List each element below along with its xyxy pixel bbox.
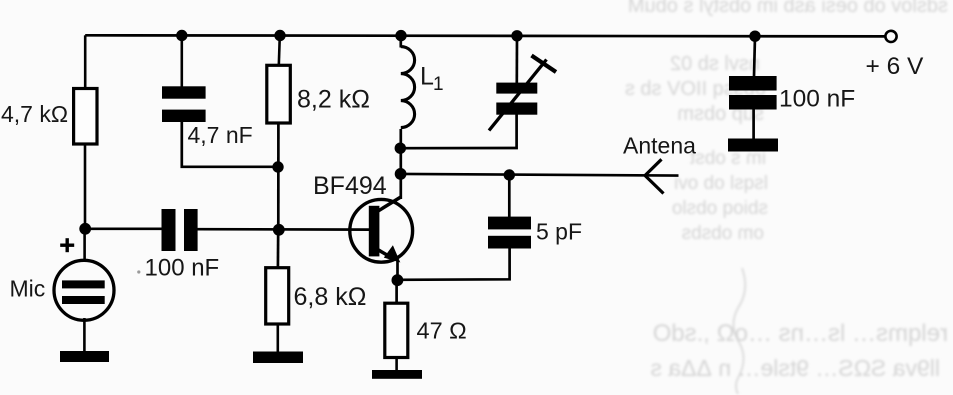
svg-text:sdslov ob oesi asb im obstyl s: sdslov ob oesi asb im obstyl s obuM — [628, 0, 948, 17]
terminal +6V — [885, 31, 896, 42]
svg-text:4,7 nF: 4,7 nF — [188, 122, 253, 148]
svg-text:nsvl sb 02: nsvl sb 02 — [670, 53, 760, 75]
node L1-CV junction — [395, 143, 406, 154]
wire tank bottom — [401, 115, 517, 149]
svg-text:47 Ω: 47 Ω — [417, 318, 467, 344]
node base junction — [273, 224, 285, 236]
resistor 6,8 kOhm — [266, 268, 289, 324]
transistor Q1 BF494 — [350, 197, 413, 263]
svg-text:6,8 kΩ: 6,8 kΩ — [294, 283, 367, 311]
wire R4 to ground — [395, 358, 398, 372]
wire mic to ground — [83, 318, 86, 353]
wire mic node to C2 — [85, 227, 163, 230]
wire R1 to mic node — [84, 144, 87, 229]
svg-text:5 pF: 5 pF — [536, 219, 582, 245]
capacitor 100 nF coupling — [162, 209, 176, 251]
wire node to R4 — [395, 280, 398, 304]
svg-text:Antena: Antena — [623, 133, 696, 159]
wire antenna line — [401, 174, 679, 176]
svg-text:L: L — [420, 63, 434, 91]
node emitter junction — [392, 274, 404, 286]
wire rail to L1 — [399, 36, 402, 48]
node mic-C2 junction — [79, 223, 91, 235]
svg-text:4,7 kΩ: 4,7 kΩ — [1, 101, 68, 127]
node rail-R1C1 junction — [176, 30, 187, 41]
capacitor 100 nF decoupling — [729, 76, 777, 91]
wire L1 to collector — [399, 129, 402, 199]
ground C4 — [728, 139, 778, 152]
node R2-C1 junction — [272, 161, 283, 172]
ground R3 — [253, 352, 303, 364]
wire rail to C1 — [181, 36, 184, 87]
wire rail to CV — [515, 36, 518, 83]
wire +6V top rail — [85, 35, 886, 36]
wire rail to R2 — [279, 36, 280, 66]
svg-text:Mic: Mic — [10, 276, 46, 302]
ground mic — [60, 351, 109, 362]
resistor 4,7 kOhm — [74, 89, 97, 145]
microphone Mic — [54, 260, 114, 320]
svg-text:100 nF: 100 nF — [145, 255, 220, 282]
node rail-R2 junction — [274, 30, 285, 41]
wire base node to R3 — [277, 230, 280, 268]
svg-text:BF494: BF494 — [313, 172, 387, 200]
label 100 nF — [137, 270, 140, 273]
svg-text:lsqsl ob ovi: lsqsl ob ovi — [674, 173, 768, 194]
wire R2 to base node — [277, 123, 280, 230]
svg-text:+ 6 V: + 6 V — [866, 53, 925, 80]
node rail-CV junction — [511, 30, 522, 41]
variable capacitor CV — [489, 56, 556, 131]
svg-text:ll9va SΩS… 9tsle… n ΔΔa s: ll9va SΩS… 9tsle… n ΔΔa s — [650, 355, 940, 381]
svg-text:sbioq obslo: sbioq obslo — [672, 198, 768, 219]
antenna arrow — [645, 159, 664, 193]
svg-text:om obsbs: om obsbs — [682, 223, 764, 244]
resistor 47 Ohm — [385, 303, 408, 357]
label + polarity — [60, 238, 74, 252]
svg-text:8,2 kΩ: 8,2 kΩ — [297, 86, 370, 114]
svg-text:1: 1 — [433, 74, 444, 95]
node rail-C4 junction — [749, 31, 760, 42]
inductor L1 — [401, 47, 415, 128]
node collector-antenna junction — [395, 168, 407, 180]
wire C1 to R2 bottom node — [182, 122, 278, 167]
wire antenna node to C3 — [508, 175, 511, 217]
wire C2 to transistor base — [198, 228, 370, 231]
ground R4 — [372, 370, 422, 379]
wire rail to R1 — [84, 35, 87, 88]
svg-text:relqms… ls…ns …oΩ ,.sdO: relqms… ls…ns …oΩ ,.sdO — [653, 320, 948, 347]
wire C3 to emitter node — [397, 249, 509, 280]
wire rail to C4 — [754, 36, 755, 76]
bleed-through ghost text (decorative) — [625, 0, 948, 394]
node antenna-C3 junction — [504, 169, 515, 180]
resistor 8,2 kOhm — [267, 65, 291, 123]
wire node to mic — [83, 229, 86, 262]
wire C4 to ground — [752, 109, 755, 140]
wire emitter to node — [396, 260, 399, 280]
capacitor 4,7 nF — [162, 86, 206, 98]
node rail-L1 junction — [395, 30, 406, 41]
capacitor 5 pF — [488, 217, 531, 230]
wire R3 to ground — [276, 324, 279, 353]
svg-text:100 nF: 100 nF — [779, 86, 855, 113]
